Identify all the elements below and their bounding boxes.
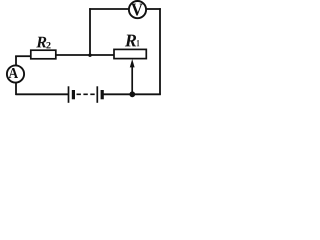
battery cell 2 short thick plate bbox=[101, 90, 104, 99]
battery dashed link (more cells) bbox=[77, 93, 96, 95]
ammeter letter A bbox=[9, 68, 18, 78]
junction blob at voltmeter tap node bbox=[88, 54, 91, 57]
wire bottom-left (ammeter to battery) bbox=[16, 93, 69, 95]
wire right vertical bbox=[159, 8, 161, 95]
rheostat slider stem bbox=[131, 63, 133, 95]
rheostat slider arrowhead bbox=[130, 59, 135, 67]
ammeter A1 circle bbox=[7, 65, 24, 82]
battery cell 2 long plate bbox=[96, 86, 98, 103]
voltmeter letter V bbox=[131, 4, 143, 16]
label R1 subscript bbox=[137, 40, 139, 46]
battery cell 1 long plate bbox=[68, 86, 70, 103]
label R1 bbox=[125, 35, 136, 47]
wire top-right segment (voltmeter to right corner) bbox=[146, 8, 161, 10]
label R2 subscript bbox=[46, 42, 50, 48]
voltmeter V1 circle bbox=[129, 1, 146, 18]
resistor R1 body (rheostat) bbox=[114, 49, 146, 58]
wire R2 to R1 bbox=[56, 54, 115, 56]
wire middle vertical (voltmeter tap) bbox=[89, 8, 91, 56]
junction node dot bbox=[129, 91, 135, 97]
battery cell 1 short thick plate bbox=[72, 90, 75, 99]
wire ammeter to R2 bbox=[15, 55, 31, 57]
resistor R2 body bbox=[31, 50, 56, 59]
wire top-left segment (node to voltmeter) bbox=[89, 8, 129, 10]
wire ammeter top lead bbox=[15, 56, 17, 66]
label R2 bbox=[36, 37, 46, 48]
wire ammeter bottom lead bbox=[15, 83, 17, 96]
wire bottom-right (battery to right corner) bbox=[104, 93, 161, 95]
